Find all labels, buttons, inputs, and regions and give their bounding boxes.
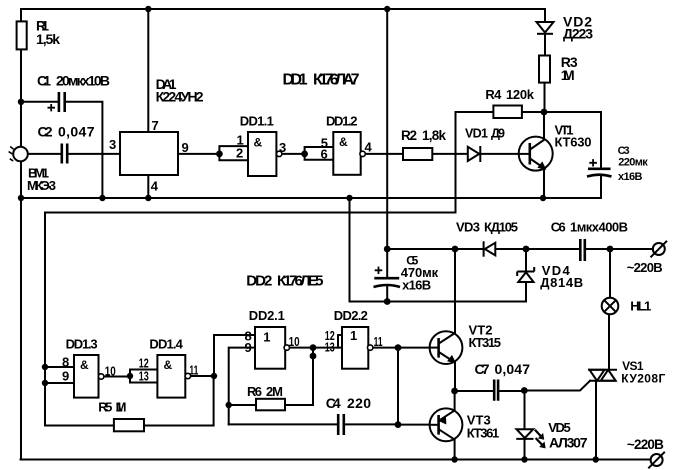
gate DD1.3 output bubble pin10 [99,374,104,379]
wire DD2.2 input pin13 [313,347,342,349]
svg-text:C7: C7 [475,361,490,377]
wire HL1 node to terminal [610,248,653,250]
svg-text:10: 10 [105,363,116,378]
node DD2.1 output [310,344,317,351]
node bottom rail VS1 [593,456,599,462]
svg-text:DD1.3: DD1.3 [66,337,98,352]
wire C1 to ground via vertical [66,102,103,198]
wire R6 to pin9 vertical [229,404,256,406]
wire BM1 to C2 [28,153,61,155]
node 220V line / VD4 [523,246,530,253]
wire C1 branch left [21,101,58,103]
svg-text:КТ315: КТ315 [469,335,502,350]
svg-text:HL1: HL1 [630,299,651,314]
gate DD2.2 box [342,327,368,369]
svg-text:3: 3 [109,137,116,152]
svg-text:DD1.4: DD1.4 [149,337,183,352]
node DD1.3 pin8 [42,364,48,370]
svg-text:1мкх400В: 1мкх400В [570,220,628,235]
node top rail / long vertical [384,6,390,12]
node top rail / DA1 pin7 [145,6,151,12]
svg-text:1,5k: 1,5k [36,31,60,47]
node DD1.2 input [301,151,308,158]
svg-text:3: 3 [279,140,286,155]
wire C3 top lead [600,112,602,168]
wire R5 loop left [45,425,114,427]
node ground rail VT1 emitter [540,195,546,201]
wire mid ground rail [21,197,601,199]
svg-text:11: 11 [374,334,383,349]
terminal ~220V top [651,241,668,257]
lamp HL1 [602,298,619,315]
wire VD2 to R3 [544,34,546,56]
svg-text:DD2: DD2 [246,272,272,289]
svg-text:13: 13 [139,369,149,384]
node ground rail left [18,195,24,201]
resistor R4 [493,106,522,119]
wire C6 to HL1 node [586,248,610,250]
capacitor C6 plates [580,239,585,261]
svg-text:6: 6 [321,147,328,162]
gate DD1.3 box [74,355,99,398]
svg-text:х16В: х16В [618,171,643,183]
wire feedback vertical x455 down to lower rail [455,112,457,213]
resistor R1 [17,21,27,49]
node C1 tap [18,99,24,105]
LED VD5 [516,429,545,448]
gate DD1.2 output bubble pin4 [360,151,365,156]
svg-text:2: 2 [236,146,243,161]
svg-text:R6: R6 [247,384,262,399]
svg-text:C6: C6 [551,220,566,235]
svg-text:9: 9 [62,369,69,384]
svg-text:&: & [339,135,348,149]
wire long vertical from top rail to C5 [386,9,388,278]
node C5 bottom [384,298,391,305]
capacitor C2 plates [62,144,67,164]
wire DD1.2 output pin4 to R2 [365,153,403,155]
svg-text:К176ЛЕ5: К176ЛЕ5 [277,272,324,289]
wire HL1 to VS1 [608,314,610,370]
wire R5 to DD1.4 output node [144,376,214,426]
svg-text:7: 7 [152,118,159,133]
resistor R5 [114,419,144,431]
node emitters / C7 [451,388,458,395]
zener diode VD4 [517,267,534,282]
capacitor C3 plus sign [589,159,597,166]
wire DD1.4 node up to DD2.1 pin8 [214,335,255,376]
wire C2 to DA1 pin3 [68,153,120,155]
wire left vertical rail (R1 / BM1 branch) [20,9,22,460]
svg-text:~220В: ~220В [627,260,663,275]
node 220V line / HL1 [607,246,614,253]
capacitor C1 plus sign [48,104,56,111]
svg-text:0,047: 0,047 [495,361,531,377]
wire VS1 gate [524,381,590,391]
capacitor C3 plates (electrolytic) [587,169,612,177]
node DD2.1 feedback [310,353,317,360]
svg-text:Д9: Д9 [491,127,505,141]
svg-text:20мкх10В: 20мкх10В [56,73,110,89]
wire VD3 to VD4 node [496,248,526,250]
node ground rail C5 branch [346,195,352,201]
terminal ~220V bottom [648,452,665,469]
microphone BM1 [9,147,28,162]
node 220V line / VT2 collector [452,246,459,253]
wire DD1.4 input bracket pins 12,13 [130,370,157,383]
svg-text:К224УН2: К224УН2 [156,89,204,105]
wire DD2.1 output feedback vertical [285,348,313,405]
node ground rail C1 [99,195,105,201]
svg-text:4: 4 [151,179,159,194]
wire HL1 top lead [609,249,611,298]
node VT2 base [395,344,402,351]
wire DD2.1 output to DD2.2 [288,347,313,349]
svg-text:4: 4 [365,140,373,155]
wire C5 bottom lead [386,286,388,302]
wire VT3 base [398,424,430,426]
wire DD1.1 output to DD1.2 [282,153,305,155]
svg-text:DD1.2: DD1.2 [326,114,358,129]
svg-text:13: 13 [325,339,335,354]
node bottom rail VD5 [521,456,527,462]
gate DD1.4 output bubble pin11 [185,373,190,378]
svg-text:0,047: 0,047 [58,124,95,140]
svg-text:DD1.1: DD1.1 [240,114,274,129]
wire VD4 node to C6 [526,248,579,250]
node R6 left [226,402,232,408]
wire DD1.2 input bracket pins 5,6 [305,147,334,160]
wire DD1.1 input bracket pins 1,2 [219,146,248,160]
wire VD2 branch from top rail [544,9,546,22]
wire DA1 pin9 to DD1.1 inputs [178,153,219,155]
wire R2 to VD1 [432,153,467,155]
svg-text:1М: 1М [561,67,575,83]
svg-text:220мк: 220мк [618,156,648,168]
svg-text:C2: C2 [38,124,53,140]
node ground rail DA1 pin4 [145,195,151,201]
wire VD5 branch [524,391,526,460]
svg-text:Д814В: Д814В [540,275,583,290]
gate DD1.4 box [157,355,185,398]
gate DD2.1 box [255,327,285,369]
capacitor C1 plates [59,92,65,112]
svg-text:220: 220 [347,395,371,411]
wire DD1.3 input pin8 [45,366,74,368]
svg-text:DD2.2: DD2.2 [334,308,368,323]
wire DA1 pin4 to ground rail [147,175,149,198]
svg-text:9: 9 [182,140,189,155]
wire VT base tie vertical [397,348,399,425]
svg-text:~220В: ~220В [627,437,664,452]
svg-text:R5: R5 [98,400,112,415]
node DD1.4 output [211,373,217,379]
svg-text:C3: C3 [618,145,630,157]
svg-text:R2: R2 [401,128,417,143]
wire VD4 top lead [525,249,527,272]
node VT3 base / C4 [395,421,402,428]
svg-text:х16В: х16В [402,278,431,293]
wire R3 to node [544,83,546,112]
wire VS1 bottom lead to rail [595,381,597,460]
transistor VT1 [519,137,553,171]
svg-text:К176ЛА7: К176ЛА7 [313,72,360,89]
diode VD3 [484,241,496,256]
svg-text:&: & [164,358,173,372]
svg-text:R4: R4 [485,87,502,102]
svg-text:Д223: Д223 [563,26,593,42]
wire top supply rail [21,8,545,10]
svg-text:C1: C1 [37,73,51,89]
gate DD1.2 box [333,132,360,175]
svg-text:КТ630: КТ630 [555,135,592,150]
node DD1.1 input [216,151,223,158]
svg-text:1: 1 [350,328,357,343]
svg-text:DD2.1: DD2.1 [249,308,285,323]
svg-text:8: 8 [62,355,69,370]
wire lower feedback rail to DD1.3 [45,213,456,426]
svg-text:1,8k: 1,8k [422,128,446,143]
wire VD1 to VT1 base [481,153,520,155]
wire DD2.1 pin9 branch [229,348,255,425]
node C7 / VS1 gate / VD5 [521,387,528,394]
thyristor VS1 triac [588,370,617,381]
svg-text:11: 11 [189,363,198,378]
svg-text:&: & [254,136,263,150]
capacitor C5 plates (electrolytic) [374,278,401,287]
svg-text:КД105: КД105 [484,220,518,235]
wire DA1 pin7 vertical [147,9,149,132]
node 220V line / long vertical [384,246,391,253]
wire C3 bottom lead [600,176,602,199]
svg-text:VD3: VD3 [456,220,480,235]
gate DD1.1 output bubble pin3 [277,151,282,156]
svg-text:&: & [80,358,89,372]
gate DD2.2 output bubble pin11 [368,345,373,350]
op-amp U1 box DA1 [120,132,178,175]
resistor R2 [403,148,432,160]
gate DD2.1 output bubble pin10 [284,345,289,350]
resistor R3 [539,56,550,83]
wire DD1.3 input pin9 [45,382,74,384]
node bottom rail VT3 [451,456,457,462]
svg-text:КТ361: КТ361 [467,425,500,440]
resistor R6 [256,399,285,411]
svg-text:2М: 2М [266,384,283,399]
svg-text:DD1: DD1 [283,72,308,89]
wire C7 to gate node [499,390,524,392]
capacitor C4 plates [338,414,344,435]
node R3/R4/VT1 collector [541,109,548,116]
svg-text:КУ208Г: КУ208Г [621,372,665,386]
wire 220V line left of VD3 [387,248,483,250]
transistor VT3 [430,408,463,441]
transistor VT2 [430,331,463,364]
diode VD1 [468,146,481,162]
wire bottom rail [21,459,651,461]
wire DD2.2 input pin12 riser [338,335,342,348]
svg-text:120k: 120k [506,87,535,102]
wire VT2 VT3 vertical collector/emitter chain [454,391,456,460]
svg-text:VD5: VD5 [548,420,571,435]
capacitor C5 plus sign [375,267,383,274]
svg-text:C4: C4 [326,395,341,411]
diode VD2 [537,22,554,34]
wire C4 bottom run [229,423,398,425]
svg-text:АЛ307: АЛ307 [549,435,588,451]
svg-text:1М: 1М [116,400,127,415]
svg-text:1: 1 [263,330,270,345]
wire C5/VD4 ground return [350,198,527,302]
wire VD4 bottom lead [525,282,527,302]
node DD1.3 pin9 [42,380,48,386]
wire DD1.4 output to node [190,375,214,377]
node DD1.3 output [127,373,133,379]
wire VT1 collector-emitter vertical [543,112,545,198]
svg-text:9: 9 [245,340,252,355]
wire VT2/VT3 emitter node to C7 [455,390,494,392]
wire DD2.2 output to VT2 base [373,347,430,349]
wire R4 branch from vertical to node [456,111,602,113]
wire DD1.3 output to DD1.4 [103,376,130,378]
gate DD1.1 box [248,132,276,176]
svg-text:VD1: VD1 [465,127,488,141]
wire VT2 collector vertical from 220V line [454,249,456,391]
svg-text:10: 10 [289,334,300,349]
capacitor C7 plates [494,380,498,401]
svg-text:МКЭ-3: МКЭ-3 [27,178,56,193]
